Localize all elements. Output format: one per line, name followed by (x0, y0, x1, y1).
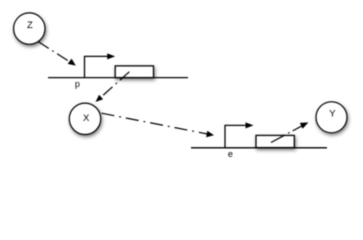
node X (69, 103, 100, 134)
arrow X to promoter e (dash-dot) (102, 113, 215, 137)
svg-text:X: X (83, 113, 90, 124)
arrow gene box 2 to Y (dash-dot) (271, 122, 308, 142)
svg-text:Y: Y (329, 109, 336, 120)
node Z (14, 13, 45, 44)
promoter p bent arrow (85, 53, 116, 77)
svg-text:e: e (228, 149, 233, 159)
arrow Z to promoter p (dash-dot) (38, 42, 76, 66)
DNA line 1 (48, 77, 188, 79)
promoter e bent arrow (225, 122, 254, 147)
gene box 1 (115, 66, 153, 78)
svg-text:p: p (75, 79, 80, 89)
node Y (316, 102, 347, 133)
gene box 2 (256, 135, 294, 147)
DNA line 2 (191, 147, 327, 149)
arrow gene box 1 to X (dash-dot) (96, 72, 130, 102)
svg-text:Z: Z (27, 20, 33, 31)
